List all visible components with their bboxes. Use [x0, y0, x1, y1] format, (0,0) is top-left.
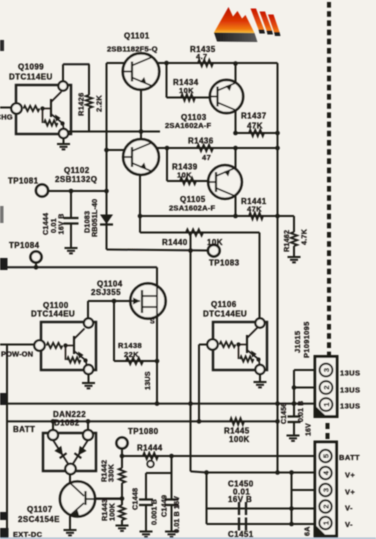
- svg-text:V-: V-: [345, 504, 353, 513]
- svg-text:330K: 330K: [107, 463, 116, 482]
- svg-text:P1091095: P1091095: [302, 321, 311, 358]
- svg-text:0.01 B 16V: 0.01 B 16V: [172, 496, 181, 533]
- svg-text:13US: 13US: [340, 369, 360, 378]
- svg-text:BATT: BATT: [13, 425, 35, 434]
- svg-text:Q1102: Q1102: [64, 166, 90, 175]
- svg-text:100K: 100K: [108, 502, 117, 521]
- svg-text:V+: V+: [345, 488, 355, 497]
- svg-text:R1438: R1438: [118, 341, 142, 350]
- svg-text:DTC144EU: DTC144EU: [203, 310, 247, 319]
- svg-text:R1444: R1444: [137, 444, 163, 453]
- svg-text:5: 5: [322, 454, 331, 458]
- svg-text:2.2K: 2.2K: [95, 95, 104, 112]
- svg-text:R1440: R1440: [162, 238, 188, 247]
- svg-text:C1448: C1448: [131, 488, 140, 510]
- svg-text:0.001 B: 0.001 B: [150, 499, 159, 525]
- svg-text:100K: 100K: [229, 435, 250, 444]
- svg-text:10K: 10K: [207, 238, 223, 247]
- svg-text:2: 2: [322, 504, 331, 508]
- svg-text:6A: 6A: [303, 526, 312, 536]
- svg-text:4.7K: 4.7K: [300, 228, 309, 245]
- svg-text:2SB1132Q: 2SB1132Q: [55, 175, 97, 184]
- svg-text:R1426: R1426: [77, 92, 86, 116]
- svg-text:RB051L-40: RB051L-40: [90, 199, 99, 237]
- svg-text:16V B: 16V B: [228, 495, 252, 504]
- svg-text:R1436: R1436: [188, 137, 214, 146]
- svg-text:2: 2: [322, 385, 331, 389]
- svg-text:13US: 13US: [340, 402, 360, 411]
- svg-text:2SA1602A-F: 2SA1602A-F: [165, 121, 211, 130]
- svg-text:0.01 B: 0.01 B: [298, 401, 305, 422]
- svg-text:22K: 22K: [124, 350, 139, 359]
- svg-text:4.7: 4.7: [196, 52, 208, 61]
- svg-text:DTC144EU: DTC144EU: [31, 310, 75, 319]
- svg-text:13US: 13US: [143, 371, 152, 390]
- svg-text:1: 1: [322, 521, 331, 525]
- svg-text:10K: 10K: [177, 171, 192, 180]
- svg-text:10K: 10K: [179, 86, 194, 95]
- svg-text:2SA1602A-F: 2SA1602A-F: [169, 204, 215, 213]
- svg-text:TP1083: TP1083: [209, 259, 240, 268]
- svg-text:47K: 47K: [247, 205, 262, 214]
- svg-text:13US: 13US: [340, 386, 360, 395]
- svg-text:3: 3: [322, 368, 331, 372]
- svg-text:Q1099: Q1099: [18, 63, 44, 72]
- svg-text:Q1107: Q1107: [27, 505, 53, 514]
- svg-text:R1462: R1462: [282, 230, 291, 252]
- svg-text:C1456: C1456: [281, 403, 288, 424]
- svg-text:16V B: 16V B: [57, 214, 66, 235]
- svg-text:TP1084: TP1084: [9, 241, 40, 250]
- svg-text:C1449: C1449: [160, 495, 169, 517]
- svg-text:2SJ355: 2SJ355: [91, 288, 121, 297]
- svg-text:TP1080: TP1080: [128, 427, 159, 436]
- svg-text:3: 3: [322, 488, 331, 492]
- svg-text:POW-ON: POW-ON: [1, 350, 33, 359]
- svg-text:BATT: BATT: [339, 453, 360, 462]
- svg-text:47K: 47K: [247, 122, 263, 131]
- svg-text:2SC4154E: 2SC4154E: [18, 515, 60, 524]
- svg-text:16V: 16V: [306, 423, 313, 436]
- svg-text:R1437: R1437: [241, 112, 267, 121]
- svg-text:D1082: D1082: [54, 419, 80, 428]
- svg-text:V+: V+: [345, 471, 355, 480]
- svg-text:J1015: J1015: [293, 331, 302, 353]
- svg-text:2SB1182F5-Q: 2SB1182F5-Q: [107, 45, 158, 54]
- svg-text:DTC114EU: DTC114EU: [9, 73, 53, 82]
- svg-text:TP1081: TP1081: [8, 177, 39, 186]
- svg-text:47: 47: [202, 153, 211, 162]
- svg-text:S: S: [150, 319, 155, 326]
- svg-text:1: 1: [322, 402, 331, 406]
- svg-text:Q1101: Q1101: [124, 32, 150, 41]
- svg-text:V-: V-: [345, 520, 353, 529]
- svg-text:CHG: CHG: [0, 113, 13, 122]
- svg-text:Q1106: Q1106: [211, 300, 237, 309]
